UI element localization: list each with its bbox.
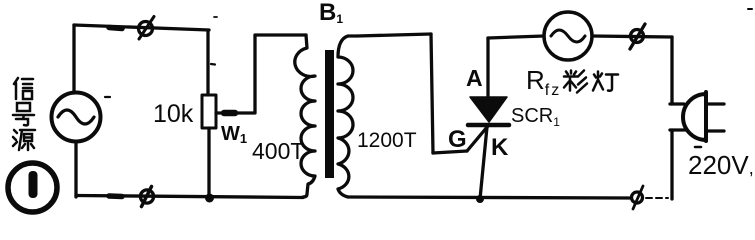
wire lamp to corner: [592, 36, 672, 37]
speck marks (scan artifacts): [105, 96, 110, 98]
wire plug stub top: [670, 102, 684, 105]
SCR anode wire: [486, 38, 489, 98]
plug prong top: [706, 102, 724, 105]
wire pot bottom: [207, 128, 210, 197]
plug prong bottom: [706, 129, 724, 132]
wire right vertical lower: [670, 130, 673, 199]
arrowhead on top-left wire: [109, 28, 122, 29]
wire pot branch top: [206, 30, 209, 95]
wiper arrow W1: [216, 35, 306, 113]
wire secondary right vertical: [431, 34, 433, 153]
SCR gate lead: [467, 126, 488, 151]
SCR triangle: [470, 97, 507, 122]
svg-text:1200T: 1200T: [357, 129, 417, 152]
AC source G1: [52, 93, 101, 142]
svg-text:G: G: [448, 126, 467, 153]
transformer core: [325, 50, 334, 178]
svg-text:B1: B1: [319, 0, 343, 26]
wire gate horizontal: [433, 151, 467, 153]
plug body 220V: [683, 92, 706, 141]
wire source bottom: [74, 142, 77, 197]
node junction SCR cathode bottom: [476, 195, 484, 203]
svg-text:Rfz: Rfz: [526, 65, 561, 99]
arrowhead on bottom-left wire: [109, 193, 122, 199]
svg-text:220V,: 220V,: [688, 150, 754, 180]
svg-text:K: K: [491, 134, 509, 161]
lamp Rfz: [544, 12, 592, 60]
wire secondary top: [357, 34, 431, 36]
potentiometer 10k body: [202, 95, 216, 128]
wire top-right from SCR: [488, 36, 544, 38]
svg-text:400T: 400T: [252, 138, 304, 164]
wire bottom-right dashed tail: [646, 197, 668, 199]
phase mark bottom-right: [632, 186, 644, 209]
svg-text:SCR1: SCR1: [511, 105, 560, 129]
svg-text:A: A: [466, 65, 483, 91]
wire top-left loop: [74, 25, 209, 30]
svg-text:W1: W1: [221, 123, 247, 146]
transformer B1 primary coil 400T: [295, 35, 315, 197]
SCR cathode wire: [480, 127, 487, 199]
wire left vertical: [72, 25, 75, 93]
wire bottom-left: [76, 196, 303, 198]
phase mark bottom-left: [140, 187, 153, 207]
wire plug stub bottom: [670, 128, 687, 131]
node junction pot bottom: [205, 194, 214, 203]
phase mark top-left: [139, 17, 155, 40]
wire bottom-right: [348, 197, 630, 198]
label caidēng (colored lamp) hand-drawn: [564, 71, 587, 93]
svg-text:10k: 10k: [153, 100, 194, 128]
phase mark top-right: [630, 24, 645, 49]
wire right vertical upper: [670, 37, 673, 104]
label signal source (xin hao yuan) hand-drawn: [14, 78, 33, 99]
SCR cathode bar: [468, 123, 509, 128]
transformer B1 secondary coil 1200T: [338, 36, 357, 197]
badge circled 1: [8, 163, 57, 212]
